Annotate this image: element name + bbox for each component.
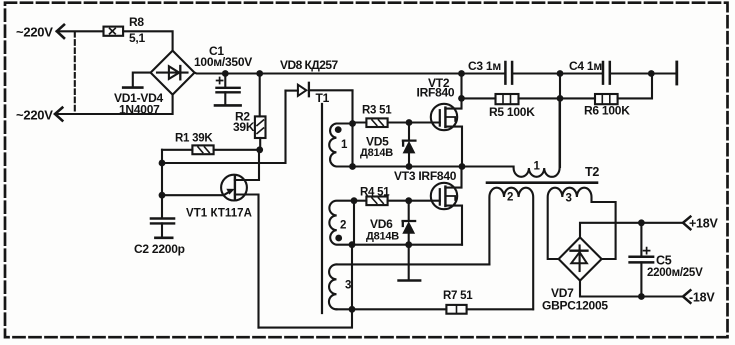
wire: VD7 minus output to -18V — [580, 281, 683, 297]
wire: C3/C4 midpoint down to T2 primary — [559, 74, 561, 167]
zener diode VD6 — [403, 201, 416, 280]
svg-text:Д814В: Д814В — [360, 147, 393, 159]
resistor R4 — [354, 197, 440, 206]
svg-text:R5 100K: R5 100K — [489, 105, 535, 119]
capacitor C3 — [505, 62, 512, 84]
svg-text:VD6: VD6 — [370, 217, 393, 231]
capacitor C4 — [603, 62, 610, 84]
svg-text:5,1: 5,1 — [129, 31, 146, 45]
wire: top DC rail (+310V) from bridge to C3 — [195, 72, 505, 75]
resistor R2 — [255, 74, 266, 150]
svg-text:VT1 КТ117А: VT1 КТ117А — [186, 208, 252, 220]
chassis stub at bridge AC corner — [123, 73, 150, 88]
node junction at T1 w3 bottom / R7 — [349, 306, 356, 313]
node junction VD5 bottom — [406, 163, 413, 170]
svg-text:39K: 39K — [233, 120, 255, 134]
svg-text:1N4007: 1N4007 — [119, 103, 160, 117]
wire: T1 w3 bottom to R7 — [337, 308, 447, 310]
svg-text:~220V: ~220V — [16, 24, 53, 39]
diode VD8 — [286, 83, 353, 96]
node: +18V output arrow — [683, 217, 690, 230]
node: ~220V upper input terminal — [57, 25, 64, 38]
terminal tick at top right — [675, 62, 678, 84]
svg-text:C4 1м: C4 1м — [569, 59, 602, 73]
svg-text:1: 1 — [534, 161, 541, 173]
resistor R1 — [162, 145, 260, 154]
svg-text:IRF840: IRF840 — [417, 86, 455, 100]
node junction C5 top — [638, 219, 645, 226]
transformer T1 winding 1 — [329, 124, 352, 167]
svg-text:C3 1м: C3 1м — [468, 59, 501, 73]
svg-text:R7 51: R7 51 — [443, 290, 473, 302]
transistor VT2 (MOSFET IRF840) — [431, 74, 462, 167]
transformer T2 winding 3 — [548, 188, 616, 259]
wire: lower mains input to bridge bottom corner — [55, 95, 173, 114]
capacitor C5 — [630, 223, 654, 297]
bridge rectifier VD7 — [559, 237, 602, 280]
wire: VD8 cathode down to T1 winding 1 — [351, 91, 353, 124]
zener diode VD5 — [403, 123, 416, 167]
node junction VT2 drain / R5 — [458, 95, 465, 102]
wire: VD7 plus output to +18V — [580, 223, 683, 238]
node junction VD6 top — [405, 197, 412, 204]
wire: line to VD8 anode branch — [162, 91, 286, 163]
svg-text:2: 2 — [340, 220, 346, 232]
svg-text:R6 100K: R6 100K — [584, 104, 630, 118]
wire: midpoint rail (VT2 source line) — [353, 165, 463, 167]
chassis bar below VD6 — [399, 279, 421, 282]
wire: bottom rail from VT1 base1 to T1 winding 3 — [259, 245, 353, 328]
node junction R1/R2/VT1 base2 — [256, 146, 263, 153]
node: -18V output arrow — [683, 290, 690, 303]
node junction T1 w2 bottom — [349, 241, 356, 248]
node junction VD6 anode on source rail — [405, 241, 412, 248]
wire: R8 to bridge top corner — [123, 31, 173, 50]
node junction at VT2 drain — [458, 70, 465, 77]
resistor R7 — [446, 305, 533, 314]
transformer T2 winding 2 — [489, 188, 533, 310]
node junction at R2 — [256, 70, 263, 77]
node junction R5 right / T2 w1 column — [557, 95, 564, 102]
svg-text:VT3 IRF840: VT3 IRF840 — [394, 169, 457, 183]
bridge rectifier VD1-VD4 — [151, 51, 195, 95]
svg-text:2: 2 — [507, 192, 513, 204]
svg-text:C2 2200p: C2 2200p — [134, 242, 185, 256]
node junction VD5 top — [406, 119, 413, 126]
svg-text:T2: T2 — [585, 165, 599, 179]
svg-text:3: 3 — [345, 280, 351, 292]
svg-text:R1 39K: R1 39K — [175, 133, 213, 145]
resistor R5 — [462, 94, 596, 104]
svg-text:GBPC12005: GBPC12005 — [542, 299, 608, 313]
node junction T1 w1 bottom — [349, 163, 356, 170]
svg-text:2200м/25V: 2200м/25V — [647, 267, 703, 279]
svg-text:T1: T1 — [316, 91, 330, 105]
svg-text:R4 51: R4 51 — [360, 187, 390, 199]
wire: rail between C3 and C4 — [513, 72, 601, 74]
node junction at VD8 return line — [159, 160, 166, 167]
node junction T1 w1 top — [349, 120, 356, 127]
svg-text:R3 51: R3 51 — [362, 105, 392, 117]
transformer T1 core — [321, 104, 323, 313]
capacitor C1 (electrolytic to chassis) — [215, 74, 241, 106]
svg-text:100м/350V: 100м/350V — [194, 55, 252, 69]
wire: rail from C4 to output terminal — [611, 72, 677, 74]
node junction after C4 — [648, 70, 655, 77]
transformer T1 winding 2 — [329, 201, 354, 245]
transistor VT1 (unijunction KT117A) — [162, 150, 259, 328]
node junction T1 w2 top — [351, 197, 358, 204]
node junction between C3 and C4 — [557, 70, 564, 77]
svg-text:C5: C5 — [656, 254, 672, 268]
svg-text:VD8 КД257: VD8 КД257 — [280, 58, 338, 72]
wire: VT3 source rail — [352, 244, 462, 246]
svg-text:~220V: ~220V — [16, 107, 53, 122]
svg-text:-18V: -18V — [689, 291, 715, 305]
transistor VT3 (MOSFET IRF840) — [431, 167, 462, 245]
wire: T1 w3 top feedback line to T2 winding 2 — [337, 263, 490, 265]
svg-text:R8: R8 — [129, 15, 144, 29]
wire: left column from R1 down — [161, 150, 163, 195]
node junction at C1 — [222, 70, 229, 77]
capacitor C2 — [151, 195, 174, 238]
svg-text:+18V: +18V — [689, 217, 718, 231]
svg-text:1: 1 — [341, 139, 348, 151]
transformer T1 winding 3 — [329, 264, 337, 309]
resistor R6 — [595, 74, 652, 105]
transformer T2 core — [487, 181, 597, 184]
resistor R8 (fusible, box with X) — [104, 27, 124, 36]
svg-text:Д814В: Д814В — [366, 231, 399, 243]
node: ~220V lower input terminal — [55, 108, 62, 121]
mains plug dashed link — [74, 32, 76, 114]
svg-text:3: 3 — [566, 193, 572, 205]
node junction VT1 emitter / C2 — [159, 192, 166, 199]
wire: upper mains input to R8 — [57, 30, 104, 32]
resistor R3 — [353, 118, 440, 127]
node junction C5 bottom — [638, 293, 645, 300]
node junction midpoint at x=462 — [459, 163, 466, 170]
transformer T2 winding 1 (primary) — [462, 98, 560, 176]
